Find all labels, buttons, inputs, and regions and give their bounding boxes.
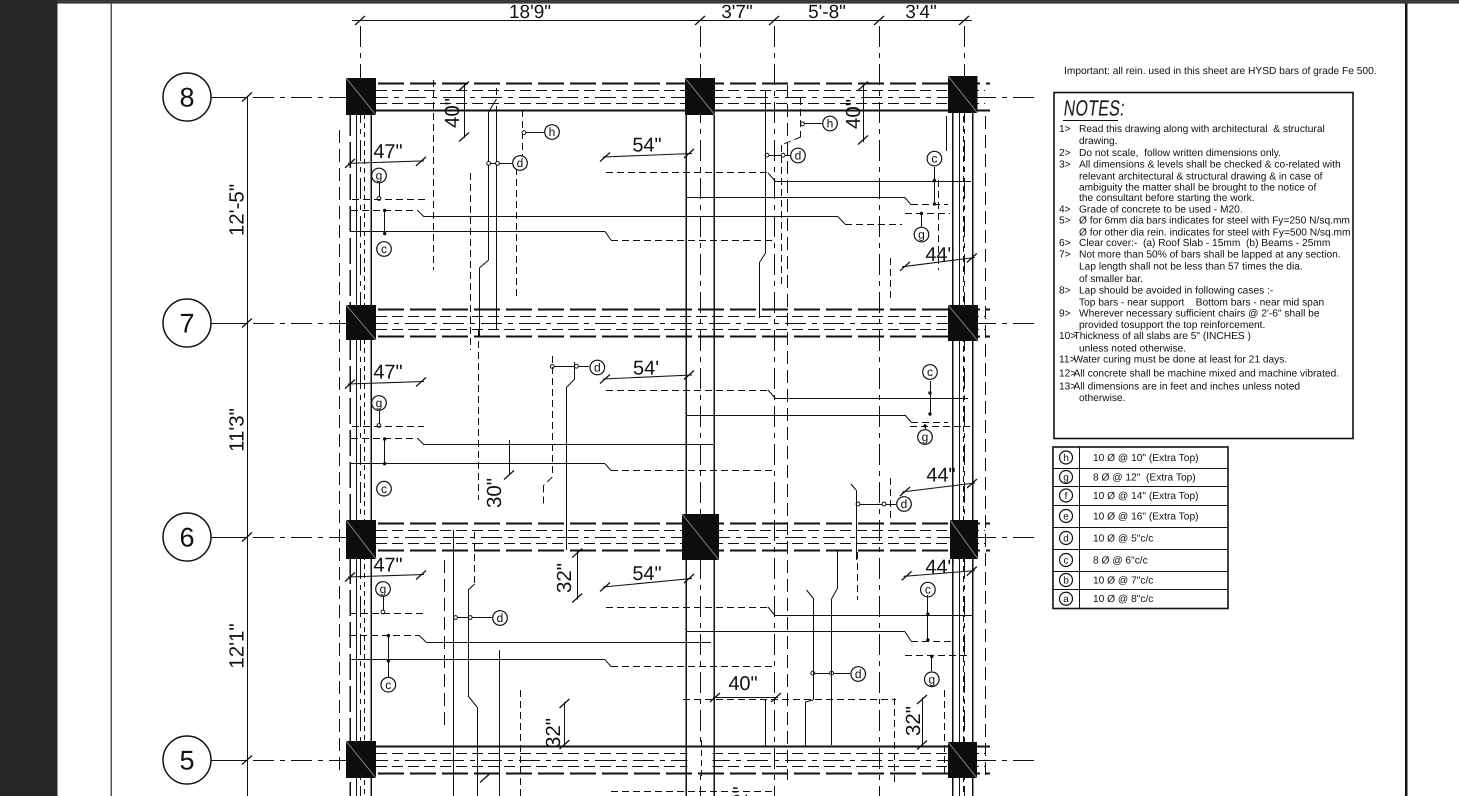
- bar marker d bay1 left: [513, 156, 528, 171]
- beam along grid row 8: [346, 83, 990, 85]
- bar marker g right bay 2: [925, 426, 927, 430]
- svg-text:a: a: [1063, 594, 1069, 605]
- rebar dashed vertical x=938 bay1: [938, 180, 940, 270]
- rebar vertical d bay2 right: [851, 484, 856, 490]
- svg-text:d: d: [1063, 533, 1069, 544]
- bar marker d bay2 left: [590, 360, 605, 375]
- svg-text:d: d: [901, 497, 908, 511]
- sheet right border: [1405, 4, 1407, 796]
- svg-text:d: d: [594, 361, 601, 375]
- top dimension line: [352, 20, 972, 22]
- svg-text:12'1": 12'1": [226, 623, 249, 668]
- top toolbar strip: [0, 0, 1459, 4]
- svg-text:4>: 4>: [1059, 204, 1071, 215]
- table row g: [1060, 471, 1073, 484]
- svg-text:40": 40": [842, 99, 865, 129]
- rebar dashed vertical x=894 bay3: [894, 698, 896, 786]
- rebar vertical d bay3 right b: [837, 550, 839, 588]
- svg-text:Clear cover:- (a) Roof Slab -: Clear cover:- (a) Roof Slab - 15mm (b) B…: [1079, 238, 1330, 249]
- bottom bar solid-to-dash bay 1: [351, 231, 605, 233]
- bar marker g bay 3: [376, 582, 391, 597]
- rebar vertical d bay1 right: [765, 90, 767, 253]
- svg-text:10 Ø @ 16" (Extra Top): 10 Ø @ 16" (Extra Top): [1093, 511, 1199, 522]
- svg-text:40": 40": [728, 673, 757, 695]
- rebar dashed vertical x=787: [787, 85, 789, 780]
- rebar dashed vertical x=857 bay3: [857, 552, 859, 600]
- svg-text:All dimensions are in feet and: All dimensions are in feet and inches un…: [1074, 382, 1301, 393]
- svg-text:the consultant before starting: the consultant before starting the work.: [1079, 193, 1255, 204]
- svg-text:All concrete shall be machine: All concrete shall be machine mixed and …: [1074, 369, 1340, 380]
- sheet left border: [110, 4, 112, 796]
- svg-text:d: d: [855, 667, 862, 681]
- svg-text:32": 32": [542, 718, 565, 748]
- svg-text:g: g: [376, 169, 383, 183]
- grid line col x=774: [774, 26, 776, 796]
- rebar dashed vertical x=433: [433, 80, 435, 270]
- bar marker c right bay 1: [927, 151, 942, 166]
- rebar dashed vertical x=470: [470, 173, 472, 350]
- beam along grid col E (x=964): [952, 76, 954, 796]
- bottom bar solid-to-dash right bay 3: [687, 631, 905, 633]
- rebar solid vertical bay3 a: [453, 530, 455, 796]
- svg-text:30": 30": [483, 478, 506, 508]
- solid bar right end bay1 jog: [838, 217, 845, 224]
- svg-text:e: e: [1063, 511, 1069, 522]
- bar marker c right bay 3: [921, 582, 936, 597]
- beam along grid col B (x=700): [685, 78, 687, 796]
- svg-text:8 Ø @ 12" (Extra Top): 8 Ø @ 12" (Extra Top): [1093, 472, 1196, 483]
- svg-text:47": 47": [373, 555, 402, 577]
- table row b: [1060, 574, 1073, 587]
- column 8-A: [346, 78, 376, 115]
- rebar vertical x=765 bay3 bottom: [765, 700, 767, 746]
- bar marker g right bay 3: [931, 657, 933, 672]
- svg-text:g: g: [922, 430, 929, 444]
- svg-text:54": 54": [632, 135, 661, 157]
- svg-text:7: 7: [179, 309, 194, 339]
- grid line row 8: [253, 97, 1035, 99]
- svg-text:g: g: [928, 672, 935, 686]
- extra-top bar g dashed bay 2: [352, 426, 424, 428]
- svg-text:47": 47": [373, 362, 402, 384]
- column 8-B: [685, 78, 715, 115]
- grid line col x=879: [879, 26, 881, 796]
- svg-text:c: c: [1064, 555, 1069, 566]
- NOTES box: [1054, 93, 1353, 439]
- svg-text:18'9": 18'9": [509, 2, 551, 23]
- svg-text:44": 44": [926, 465, 955, 487]
- svg-text:3'4": 3'4": [905, 2, 937, 23]
- rebar solid vertical bay3 b: [468, 584, 474, 590]
- top bar dash-to-solid right bay 3: [606, 607, 768, 609]
- bottom bar solid-to-dash right bay 2: [687, 415, 905, 417]
- table row a: [1060, 592, 1073, 605]
- table row e: [1060, 510, 1073, 523]
- svg-text:32": 32": [553, 563, 576, 593]
- bar marker g bay 1: [372, 168, 387, 183]
- grid line col x=700: [700, 26, 702, 796]
- bar marker c right bay 2: [923, 365, 938, 380]
- beam along grid row 6: [346, 523, 990, 525]
- svg-text:8 Ø @ 6"c/c: 8 Ø @ 6"c/c: [1093, 555, 1148, 566]
- bottom bar with bend bay 3 (dash-solid): [349, 635, 419, 637]
- svg-text:Do not scale, follow written: Do not scale, follow written dimensions …: [1079, 148, 1281, 159]
- rebar dashed vertical h bay1: [522, 110, 524, 160]
- svg-text:12'-5": 12'-5": [226, 184, 249, 236]
- grid line row 7: [253, 323, 1035, 325]
- svg-text:44": 44": [925, 557, 954, 579]
- svg-text:c: c: [381, 482, 387, 496]
- slab edge dashed west of col A: [339, 130, 341, 770]
- grid line row 6: [253, 537, 1035, 539]
- bar marker d bay3 right: [851, 667, 866, 682]
- svg-text:3'7": 3'7": [721, 2, 753, 23]
- svg-text:7>: 7>: [1059, 250, 1071, 261]
- svg-text:10 Ø @ 5"c/c: 10 Ø @ 5"c/c: [1093, 533, 1153, 544]
- svg-text:3>: 3>: [1059, 160, 1071, 171]
- column 5-A: [346, 741, 376, 778]
- leader from bubble: [211, 97, 247, 99]
- svg-text:Read this drawing along with a: Read this drawing along with architectur…: [1079, 124, 1325, 135]
- svg-text:NOTES:: NOTES:: [1062, 96, 1126, 121]
- column 5-E: [948, 742, 977, 778]
- svg-text:Water curing must be done at l: Water curing must be done at least for 2…: [1074, 355, 1288, 366]
- rebar dashed horizontal bottom edge: [611, 791, 775, 793]
- svg-text:2>: 2>: [1059, 148, 1071, 159]
- column 6-E: [950, 520, 978, 559]
- svg-text:10 Ø @ 7"c/c: 10 Ø @ 7"c/c: [1093, 575, 1153, 586]
- svg-text:f: f: [1065, 491, 1068, 502]
- svg-text:g: g: [380, 582, 387, 596]
- extra-top bar g dashed right bay 1: [905, 213, 950, 215]
- svg-text:40": 40": [441, 98, 464, 128]
- open interior of beam B at row 5: [688, 748, 713, 772]
- rebar dashed vertical h bay1 right: [800, 98, 802, 137]
- leader from bubble: [211, 537, 247, 539]
- slab edge dashed east of col E: [985, 116, 987, 780]
- svg-text:All dimensions & levels shall: All dimensions & levels shall be checked…: [1079, 160, 1341, 171]
- svg-text:Not more than 50% of bars shal: Not more than 50% of bars shall be lappe…: [1079, 250, 1341, 261]
- rebar vertical x=946 bay1 hook: [946, 116, 948, 151]
- bar marker d bay2 right: [897, 497, 912, 512]
- bar marker h bay1 left: [545, 125, 560, 140]
- svg-text:g: g: [376, 396, 383, 410]
- svg-text:d: d: [517, 156, 524, 170]
- leader from bubble: [211, 323, 247, 325]
- svg-text:drawing.: drawing.: [1079, 136, 1118, 147]
- svg-text:Wherever necessary sufficient: Wherever necessary sufficient chairs @ 2…: [1079, 308, 1320, 319]
- svg-text:otherwise.: otherwise.: [1079, 393, 1125, 404]
- grid line col x=360: [360, 26, 362, 796]
- svg-text:g: g: [1063, 472, 1069, 483]
- svg-text:d: d: [795, 149, 802, 163]
- rebar dashed vertical x=890 bay1: [890, 258, 892, 302]
- svg-text:Ø for other dia rein. indicate: Ø for other dia rein. indicates for stee…: [1079, 227, 1351, 238]
- svg-text:10 Ø @ 14" (Extra Top): 10 Ø @ 14" (Extra Top): [1093, 491, 1199, 502]
- svg-text:47": 47": [373, 141, 402, 163]
- bar marker g right bay 1: [921, 214, 923, 227]
- svg-text:of smaller bar.: of smaller bar.: [1079, 274, 1143, 285]
- extra-top bar g dashed right bay 2: [910, 426, 970, 428]
- svg-text:Lap length shall not be less t: Lap length shall not be less than 57 tim…: [1079, 262, 1303, 273]
- bar marker d bay3 left: [493, 611, 508, 626]
- grid bubble 6: [163, 513, 211, 561]
- rebar dashed vertical x=478 bay2: [478, 330, 480, 500]
- svg-text:6: 6: [179, 523, 194, 553]
- svg-text:11'3": 11'3": [226, 408, 249, 452]
- svg-text:5'-8": 5'-8": [808, 2, 846, 23]
- bottom bar with bend bay 2 (dash-solid): [351, 438, 418, 440]
- svg-text:32": 32": [902, 706, 925, 736]
- table row h: [1060, 451, 1073, 464]
- svg-text:unless noted otherwise.: unless noted otherwise.: [1079, 344, 1186, 355]
- bottom bar solid-to-dash right bay 1: [687, 197, 905, 199]
- svg-text:5>: 5>: [1059, 215, 1071, 226]
- bottom bar with bend bay 1 (dash-solid): [351, 210, 418, 212]
- svg-text:b: b: [1063, 575, 1069, 586]
- grid line row 5: [253, 760, 1035, 762]
- bar schedule table: [1053, 447, 1228, 609]
- svg-text:h: h: [1063, 453, 1069, 464]
- rebar dashed vertical x=520.6 bottom: [520, 690, 522, 796]
- rebar dashed vertical x=444 bay3: [444, 560, 446, 728]
- tick at bottom beam: [480, 774, 490, 783]
- svg-text:1>: 1>: [1059, 124, 1071, 135]
- svg-text:Top bars - near support Bo: Top bars - near support Bottom bars - ne…: [1079, 297, 1324, 308]
- rebar vertical d bay3 right a: [807, 590, 814, 598]
- rebar vertical pair bay1: [489, 99, 497, 112]
- bar marker d bay1 right: [791, 148, 806, 163]
- rebar dashed vertical x=890 bay2: [890, 478, 892, 522]
- svg-text:6>: 6>: [1059, 238, 1071, 249]
- svg-text:10 Ø @ 10" (Extra Top): 10 Ø @ 10" (Extra Top): [1093, 453, 1199, 464]
- svg-text:c: c: [931, 152, 937, 166]
- svg-text:Important: all rein. used in t: Important: all rein. used in this sheet …: [1064, 66, 1377, 77]
- bar marker g bay 2: [372, 396, 387, 411]
- svg-text:c: c: [381, 242, 387, 256]
- rebar solid vertical bay2: [574, 362, 576, 380]
- svg-text:h: h: [827, 117, 834, 131]
- left dark sidebar: [0, 0, 58, 796]
- grid bubble 5: [163, 736, 211, 784]
- svg-text:provided tosupport the top rei: provided tosupport the top reinforcement…: [1079, 320, 1265, 331]
- rebar dashed vertical x=944 bottom: [944, 690, 946, 776]
- table row d: [1060, 532, 1073, 545]
- column 7-A: [346, 305, 376, 340]
- left vertical dimension line: [247, 97, 249, 796]
- rebar vertical through beam B row5: [701, 740, 703, 780]
- grid bubble 8: [163, 73, 211, 121]
- beam along grid col A (x=360): [349, 78, 351, 796]
- svg-text:Ø for 6mm dia bars indicates f: Ø for 6mm dia bars indicates for steel w…: [1079, 215, 1350, 226]
- svg-text:5: 5: [179, 746, 194, 776]
- leader from bubble: [211, 760, 247, 762]
- column 6-A: [346, 520, 376, 559]
- svg-text:c: c: [385, 678, 391, 692]
- svg-text:8>: 8>: [1059, 286, 1071, 297]
- bottom bar solid-to-dash bay 2: [351, 463, 605, 465]
- bar marker c bay 3: [388, 636, 390, 661]
- svg-text:relevant architectural & struc: relevant architectural & structural draw…: [1079, 172, 1323, 183]
- svg-text:g: g: [918, 228, 925, 242]
- extra-top bar g dashed bay 3: [350, 613, 424, 615]
- beam along grid row 5: [346, 746, 990, 748]
- svg-text:c: c: [927, 365, 933, 379]
- column 6-B: [682, 514, 719, 560]
- svg-text:Lap should be avoided in follo: Lap should be avoided in following cases…: [1079, 286, 1273, 297]
- svg-text:8: 8: [179, 83, 194, 113]
- table row f: [1060, 489, 1073, 502]
- beam along grid row 7: [346, 309, 990, 311]
- top bar dash-to-solid right bay 2: [606, 390, 768, 392]
- top bar dash-to-solid right bay 1: [606, 172, 768, 174]
- bar marker c bay 1: [384, 211, 386, 234]
- svg-text:h: h: [549, 125, 556, 139]
- grid line col x=964: [964, 26, 966, 796]
- bar marker c bay 2: [384, 439, 386, 464]
- rebar dashed vertical bay2: [552, 356, 554, 477]
- svg-text:9>: 9>: [1059, 308, 1071, 319]
- svg-text:44": 44": [925, 244, 954, 266]
- svg-text:c: c: [925, 583, 931, 597]
- rebar vertical x=499 bay3: [499, 650, 501, 796]
- extra-top bar g dashed bay 1: [352, 199, 425, 201]
- svg-text:d: d: [497, 611, 504, 625]
- bottom bar solid-to-dash bay 3: [352, 659, 606, 661]
- table row c: [1060, 554, 1073, 567]
- svg-text:10 Ø @ 8"c/c: 10 Ø @ 8"c/c: [1093, 594, 1153, 605]
- bar marker h bay1 right: [823, 116, 838, 131]
- rebar dashed horizontal near bottom: [683, 699, 896, 701]
- extra-top bar g dashed right bay 3: [905, 655, 971, 657]
- svg-text:Thickness of all slabs are 5": Thickness of all slabs are 5" (INCHES ): [1074, 331, 1251, 342]
- column 8-E: [948, 76, 978, 113]
- svg-text:Grade of concrete to be used -: Grade of concrete to be used - M20.: [1079, 204, 1243, 215]
- column 7-E: [948, 305, 978, 341]
- grid bubble 7: [163, 299, 211, 347]
